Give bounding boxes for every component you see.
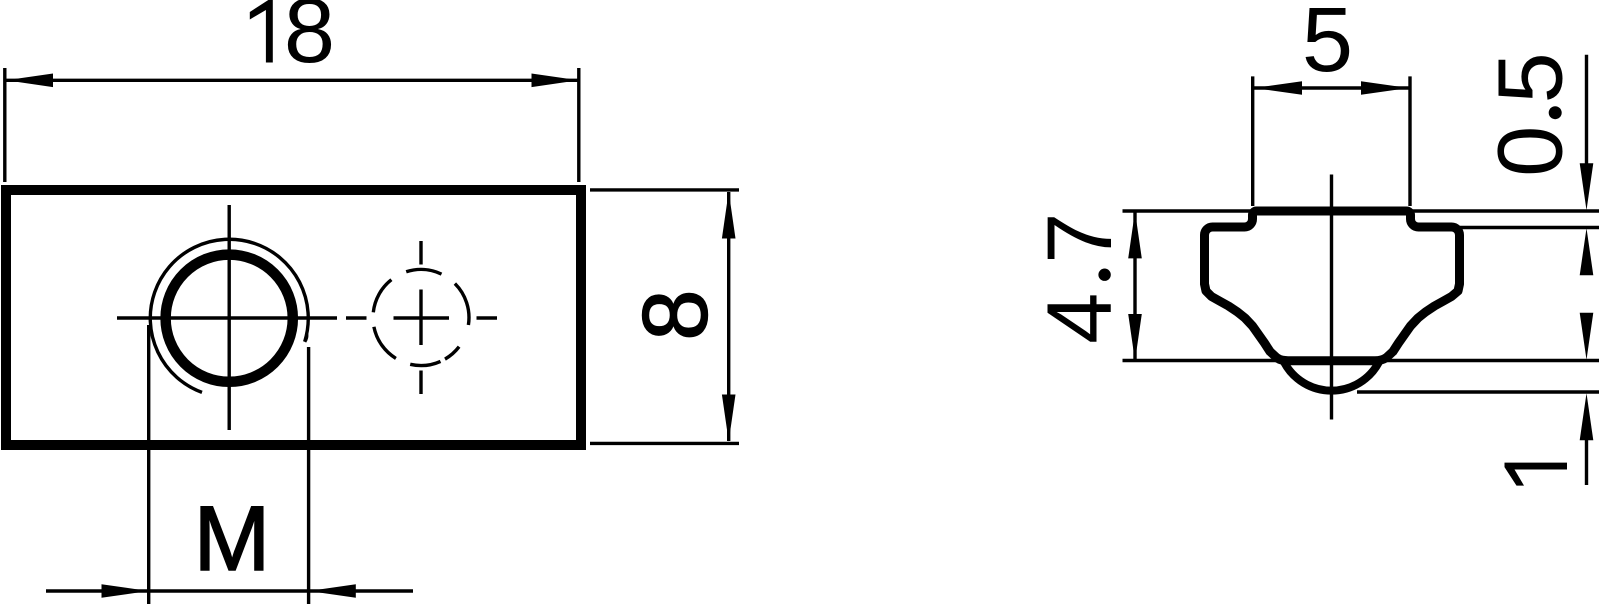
dimension 1: upper arrowhead (down) bbox=[1580, 313, 1594, 360]
extension line bottom face (y=360.5) bbox=[1123, 359, 1600, 362]
spring bump arc under bottom face bbox=[1284, 362, 1379, 391]
dimension M: right arrowhead bbox=[309, 584, 356, 598]
vertical centerline of threaded hole bbox=[227, 205, 230, 430]
svg-text:M: M bbox=[194, 488, 271, 590]
dimension 4.7: bottom arrowhead bbox=[1128, 314, 1142, 361]
svg-text:7: 7 bbox=[1029, 213, 1131, 264]
dimension 0.5: upper arrowhead (down) bbox=[1580, 163, 1594, 210]
dimension 1: leader line bbox=[1585, 438, 1588, 485]
dimension 5: left arrowhead bbox=[1254, 81, 1302, 95]
dimension 18: right arrowhead bbox=[532, 74, 579, 88]
dimension 1: lower arrowhead (up) with leader bbox=[1580, 393, 1594, 440]
dimension 4.7: dimension line bbox=[1133, 211, 1136, 361]
dimension 5: right arrowhead bbox=[1361, 81, 1409, 95]
dimension text 4.7: decimal point bbox=[1098, 269, 1110, 281]
dimension 5: extension lines bbox=[1251, 76, 1254, 206]
profile vertical centerline bbox=[1330, 175, 1333, 420]
dimension 0.5: leader line bbox=[1585, 55, 1588, 170]
nut body outline (rectangle 18x8) bbox=[6, 190, 581, 445]
dimension 18: extension lines bbox=[3, 68, 6, 182]
extension line shoulder face (y=227.5) bbox=[1457, 226, 1599, 229]
dimension 8: dimension line bbox=[727, 192, 730, 441]
dimension text 0.5: decimal point bbox=[1549, 106, 1562, 119]
svg-text:5: 5 bbox=[1480, 52, 1582, 103]
extension line bump bottom (y=392) bbox=[1357, 390, 1599, 393]
svg-text:0: 0 bbox=[1480, 126, 1582, 177]
thread arc end hook bbox=[305, 334, 307, 342]
counterbore vertical centerline bbox=[419, 241, 422, 394]
dimension M: extension lines bbox=[147, 325, 150, 604]
dimension 8: extension lines bbox=[590, 188, 739, 191]
dimension M: left arrowhead bbox=[102, 584, 149, 598]
counterbore hole: dashed circle bbox=[373, 269, 469, 365]
nut profile outline bbox=[1205, 211, 1460, 361]
thread major diameter arc (3/4 circle) bbox=[150, 239, 308, 392]
dimension text 18: digit 1 (custom glyph) bbox=[250, 0, 273, 63]
dimension 8: bottom arrowhead bbox=[722, 395, 736, 442]
dimension 0.5: lower arrowhead (up) bbox=[1580, 228, 1594, 275]
dimension 8: top arrowhead bbox=[722, 192, 736, 239]
dimension 5: dimension line bbox=[1253, 86, 1410, 89]
extension line top face (y=211) bbox=[1123, 209, 1600, 212]
dimension M: dimension line with outside arrows bbox=[46, 589, 413, 592]
svg-text:8: 8 bbox=[284, 0, 335, 82]
svg-text:5: 5 bbox=[1302, 0, 1353, 91]
dimension 4.7: top arrowhead bbox=[1128, 211, 1142, 258]
horizontal centerline through both holes bbox=[117, 316, 497, 319]
dimension 18: left arrowhead bbox=[6, 74, 53, 88]
svg-text:8: 8 bbox=[625, 289, 727, 340]
svg-text:4: 4 bbox=[1029, 293, 1131, 344]
threaded hole: minor diameter circle bbox=[166, 255, 293, 382]
dimension 18: dimension line bbox=[6, 79, 578, 82]
dimension text 1 (rotated, custom glyph) bbox=[1505, 463, 1568, 486]
